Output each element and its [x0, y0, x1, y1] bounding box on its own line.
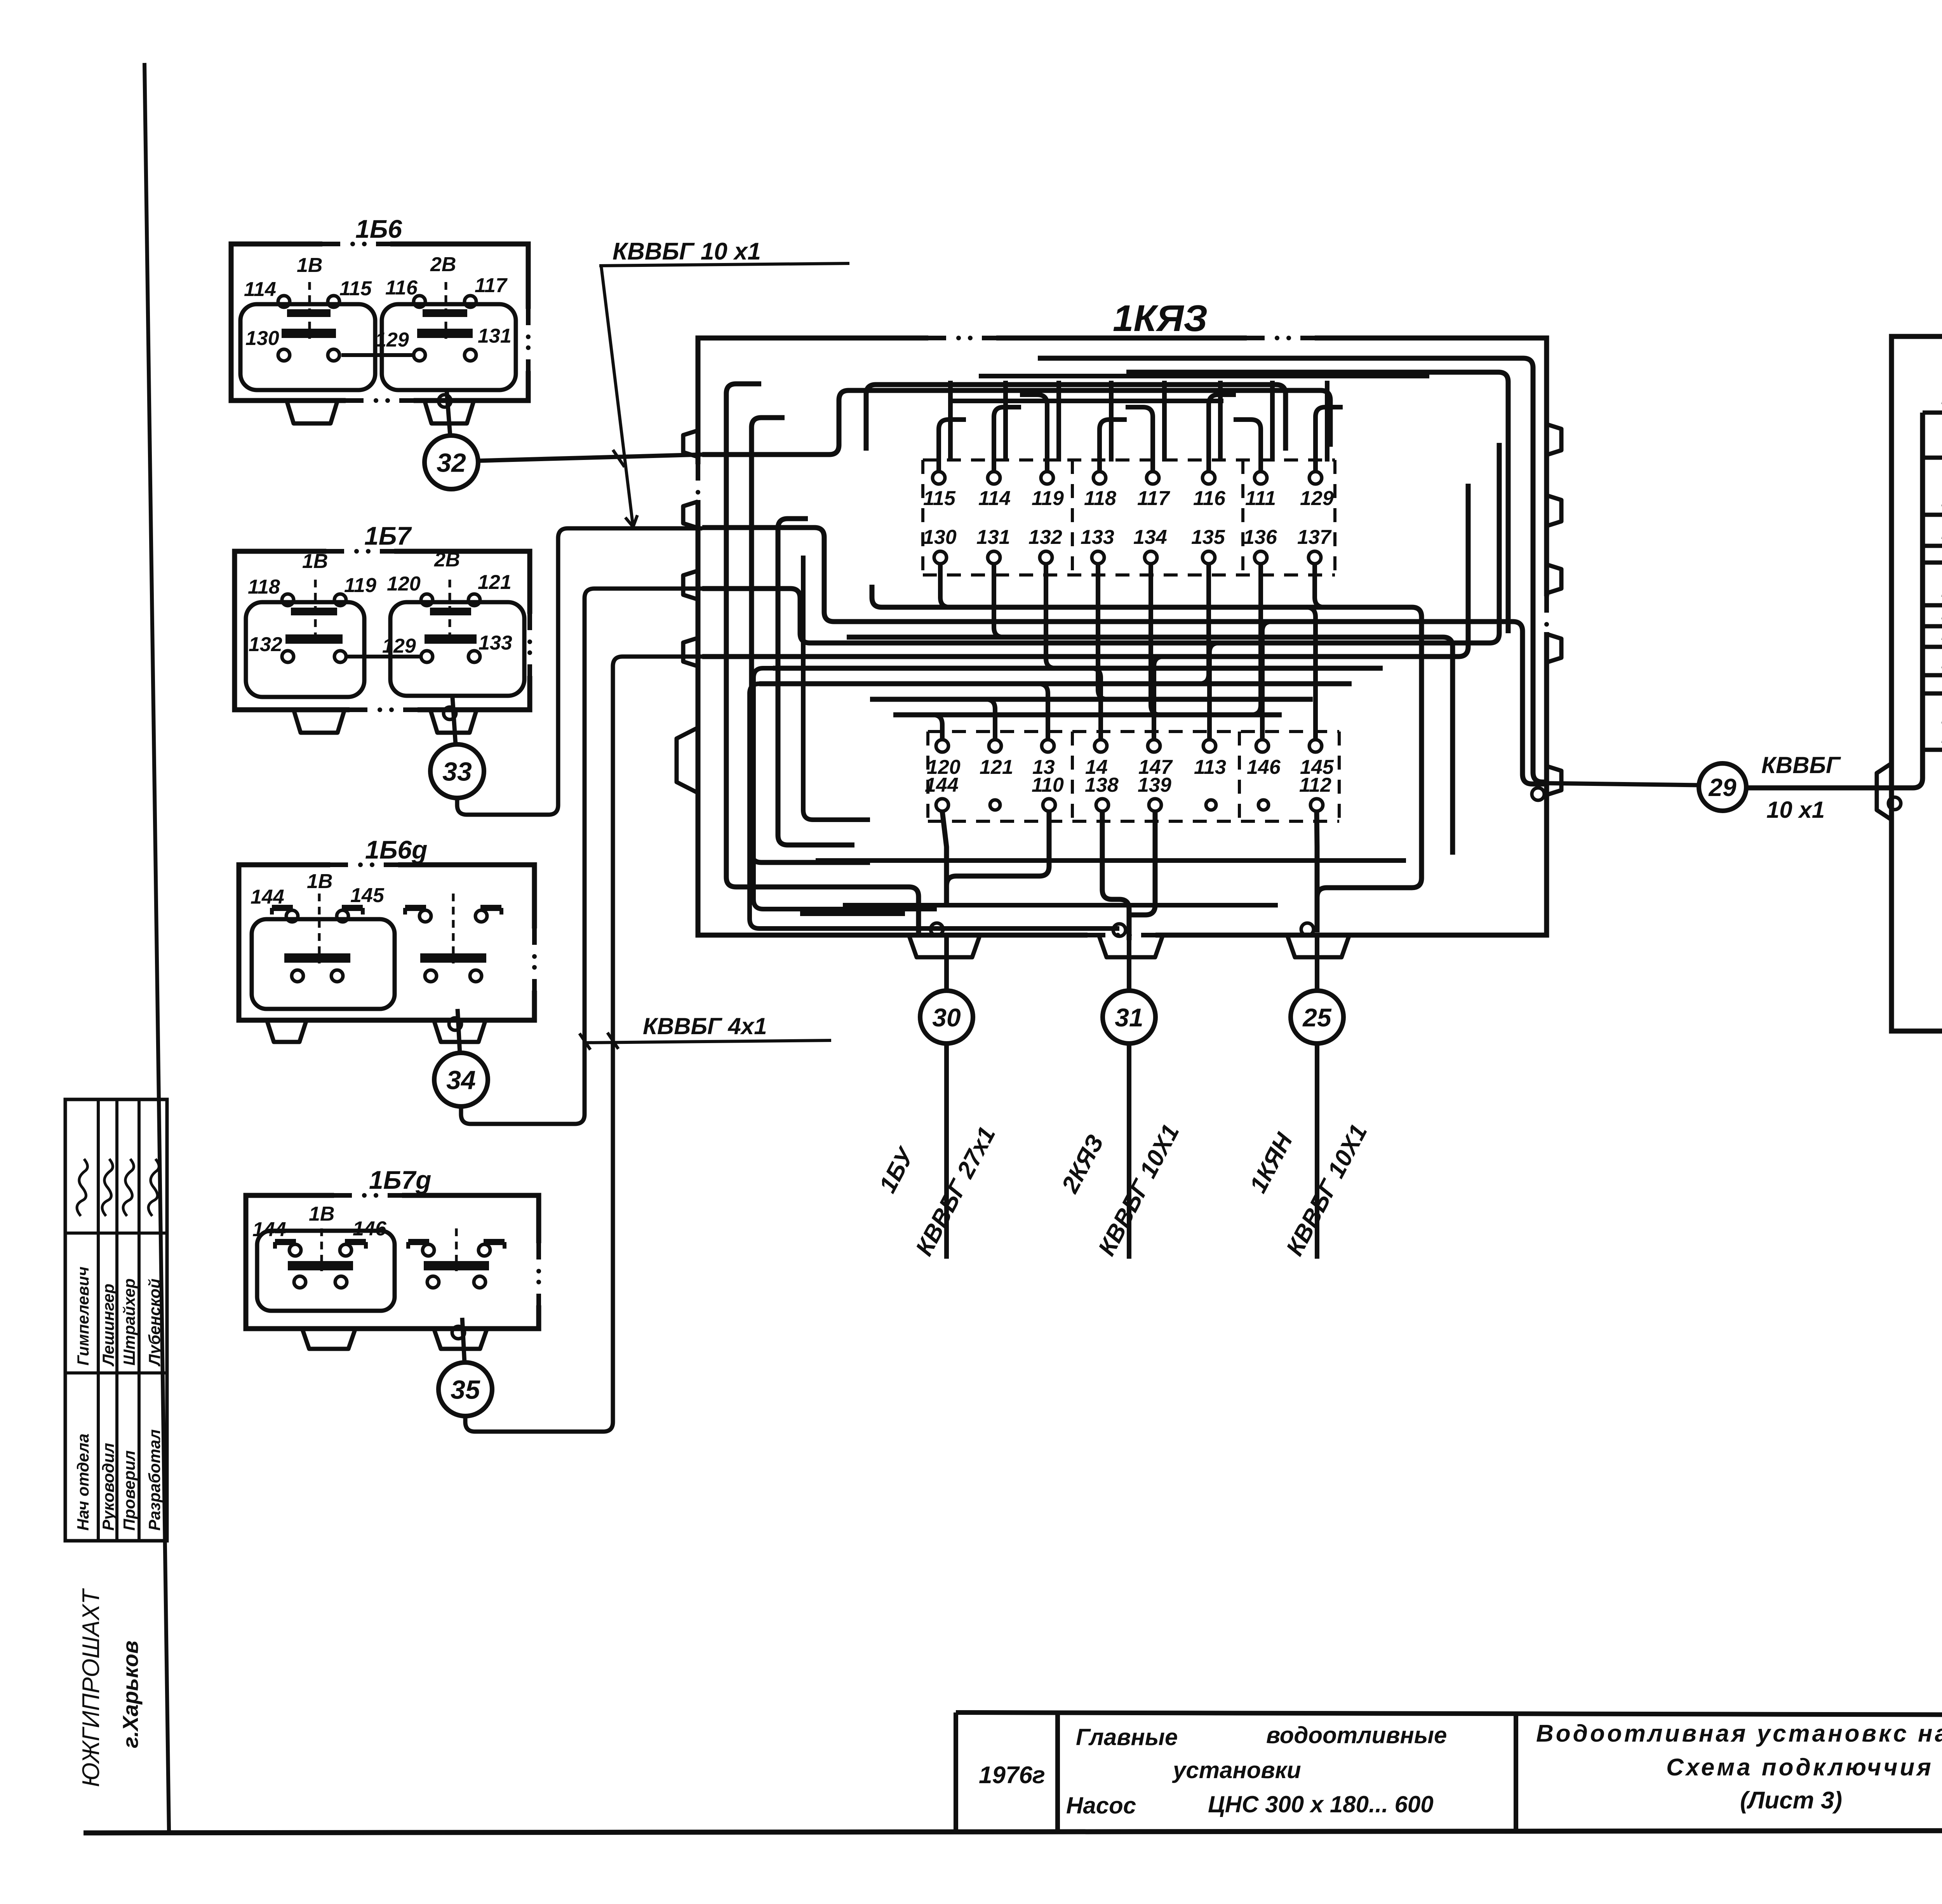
svg-text:130: 130	[245, 327, 279, 350]
svg-text:136: 136	[1243, 526, 1277, 549]
svg-text:117: 117	[1137, 487, 1170, 510]
svg-text:Штрайхер: Штрайхер	[120, 1279, 138, 1366]
svg-text:Проверил: Проверил	[120, 1450, 138, 1531]
svg-text:131: 131	[976, 526, 1010, 549]
svg-text:134: 134	[1133, 526, 1167, 549]
svg-text:144: 144	[252, 1218, 286, 1241]
svg-text:132: 132	[249, 633, 282, 656]
svg-text:121: 121	[980, 756, 1013, 779]
svg-text:1Б6g: 1Б6g	[365, 835, 427, 864]
svg-text:129: 129	[382, 635, 416, 657]
svg-text:1976г: 1976г	[979, 1762, 1045, 1789]
svg-text:Насос: Насос	[1066, 1793, 1136, 1819]
svg-text:Водоотливная установкс на 5: Водоотливная установкс на 5 агрегатов	[1536, 1720, 1942, 1747]
svg-text:132: 132	[1028, 526, 1062, 549]
svg-text:114: 114	[244, 278, 276, 301]
svg-text:115: 115	[339, 277, 372, 300]
svg-text:1Б7: 1Б7	[364, 521, 412, 550]
svg-text:1КЯЗ: 1КЯЗ	[1113, 298, 1208, 339]
svg-text:116: 116	[385, 277, 418, 299]
svg-text:144: 144	[925, 774, 959, 796]
svg-text:КВВБГ 10 х1: КВВБГ 10 х1	[613, 238, 761, 265]
svg-text:130: 130	[923, 526, 957, 549]
svg-text:111: 111	[1245, 487, 1276, 510]
svg-text:139: 139	[1138, 774, 1171, 796]
svg-text:32: 32	[437, 448, 466, 477]
svg-text:10 х1: 10 х1	[1766, 797, 1825, 823]
svg-text:110: 110	[1032, 774, 1064, 796]
svg-text:138: 138	[1085, 774, 1119, 796]
svg-text:146: 146	[1247, 756, 1281, 779]
svg-text:144: 144	[251, 886, 284, 908]
svg-text:Руководил: Руководил	[99, 1443, 117, 1531]
svg-text:119: 119	[1032, 487, 1064, 510]
svg-text:Лешингер: Лешингер	[99, 1284, 117, 1367]
svg-text:29: 29	[1708, 773, 1737, 801]
svg-text:113: 113	[1194, 756, 1226, 779]
svg-text:Нач отдела: Нач отдела	[74, 1434, 92, 1531]
svg-text:135: 135	[1191, 526, 1225, 549]
svg-text:Лубенской: Лубенской	[145, 1279, 164, 1367]
svg-text:1В: 1В	[307, 870, 332, 893]
svg-text:1В: 1В	[309, 1203, 334, 1225]
svg-text:(Лист 3): (Лист 3)	[1740, 1787, 1842, 1814]
svg-text:установки: установки	[1172, 1757, 1301, 1783]
svg-text:1В: 1В	[297, 254, 322, 277]
svg-text:2В: 2В	[430, 253, 456, 276]
svg-text:30: 30	[932, 1003, 961, 1032]
svg-text:129: 129	[375, 329, 409, 351]
svg-text:118: 118	[1084, 487, 1116, 510]
svg-text:129: 129	[1300, 487, 1334, 510]
svg-text:117: 117	[475, 274, 508, 297]
svg-text:ЮЖГИПРОШАХТ: ЮЖГИПРОШАХТ	[78, 1588, 104, 1787]
svg-text:25: 25	[1302, 1003, 1332, 1032]
svg-text:145: 145	[350, 884, 385, 907]
svg-text:35: 35	[451, 1375, 480, 1404]
svg-text:146: 146	[353, 1218, 387, 1240]
svg-text:133: 133	[479, 632, 512, 654]
svg-text:131: 131	[478, 325, 512, 347]
svg-text:120: 120	[387, 573, 421, 595]
svg-text:г.Харьков: г.Харьков	[118, 1641, 143, 1748]
svg-text:ЦНС 300 х 180... 600: ЦНС 300 х 180... 600	[1208, 1791, 1434, 1817]
svg-text:КВВБГ 4х1: КВВБГ 4х1	[643, 1013, 767, 1039]
svg-text:Схема подключчия: Схема подключчия	[1666, 1754, 1933, 1781]
svg-text:116: 116	[1193, 487, 1226, 510]
svg-text:114: 114	[978, 487, 1011, 510]
svg-text:Главные: Главные	[1076, 1724, 1178, 1750]
svg-text:водоотливные: водоотливные	[1266, 1722, 1447, 1748]
svg-text:Разработал: Разработал	[145, 1429, 164, 1531]
svg-text:121: 121	[478, 571, 512, 594]
svg-text:2В: 2В	[434, 549, 460, 571]
svg-text:1В: 1В	[302, 550, 328, 573]
svg-text:1Б7g: 1Б7g	[369, 1165, 431, 1194]
svg-text:112: 112	[1299, 774, 1331, 796]
svg-text:137: 137	[1297, 526, 1332, 549]
svg-text:31: 31	[1115, 1003, 1143, 1032]
svg-text:33: 33	[442, 757, 472, 786]
svg-text:118: 118	[248, 576, 280, 598]
svg-text:1Б6: 1Б6	[355, 214, 402, 243]
svg-text:119: 119	[344, 574, 376, 597]
svg-text:115: 115	[923, 487, 956, 510]
svg-text:Гимпелевич: Гимпелевич	[74, 1266, 92, 1366]
svg-text:34: 34	[446, 1065, 476, 1095]
svg-text:КВВБГ: КВВБГ	[1761, 752, 1841, 778]
svg-text:133: 133	[1081, 526, 1114, 549]
